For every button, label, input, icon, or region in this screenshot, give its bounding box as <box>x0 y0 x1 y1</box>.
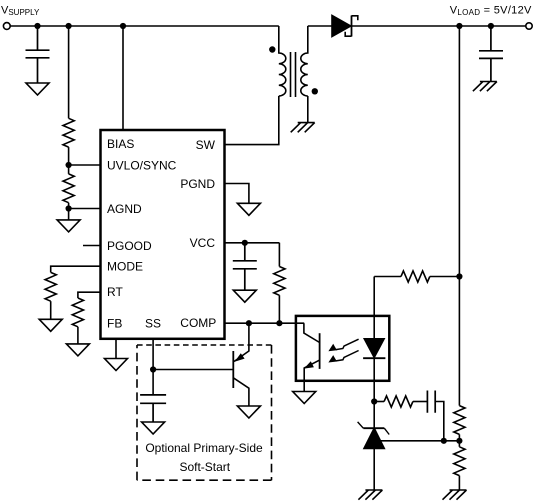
ground (VCC cap) <box>233 290 256 302</box>
node VLOAD terminal <box>526 23 532 29</box>
node VSUPPLY terminal <box>3 23 10 30</box>
wire RT to R4 <box>78 292 100 298</box>
svg-text:VCC: VCC <box>190 236 216 250</box>
wire cathode to R7 <box>374 401 384 403</box>
junction R6 rail <box>456 273 462 279</box>
dashed box optional soft-start top edge <box>137 344 272 346</box>
transformer T1 secondary winding <box>301 26 308 96</box>
svg-text:Soft-Start: Soft-Start <box>179 460 230 474</box>
optocoupler LED <box>363 339 385 358</box>
wire UVLO/SYNC pin <box>69 164 100 166</box>
svg-text:COMP: COMP <box>180 316 216 330</box>
junction BIAS <box>120 23 126 29</box>
capacitor C1 input bypass <box>26 26 50 83</box>
wire zener ref to divider <box>379 440 459 442</box>
ground (PGND) <box>237 203 260 215</box>
optocoupler light arrow lower <box>336 351 359 361</box>
junction divider mid <box>456 438 462 444</box>
svg-text:Optional Primary-Side: Optional Primary-Side <box>145 441 263 455</box>
ground (opto emitter) <box>293 392 316 404</box>
svg-text:MODE: MODE <box>107 260 143 274</box>
wire MODE to R3 <box>51 266 100 272</box>
transistor Q1 emitter arrow <box>235 353 245 362</box>
wire LED anode up <box>373 277 375 339</box>
wire R7 to C4 <box>413 401 428 403</box>
ground (FB) <box>105 359 128 371</box>
resistor R6 LED bias <box>401 271 430 282</box>
wire SS down <box>152 339 154 395</box>
resistor R7 compensation <box>384 396 413 407</box>
resistor R1 UVLO upper <box>63 118 74 147</box>
transistor Q1 collector <box>233 378 249 406</box>
optocoupler light arrow upper <box>336 339 359 349</box>
resistor R5 VCC to COMP <box>274 243 285 323</box>
wire LED cathode down <box>373 358 375 401</box>
optocoupler emitter arrow <box>304 361 314 368</box>
wire COMP to optocoupler <box>225 322 304 324</box>
wire FB stub <box>115 339 117 359</box>
resistor R8 divider upper <box>454 406 465 441</box>
svg-text:FB: FB <box>107 317 122 331</box>
resistor R4 RT <box>72 298 83 327</box>
wire BIAS <box>122 26 124 129</box>
capacitor C2 output <box>479 26 503 82</box>
junction output rail feedback <box>456 23 462 29</box>
ground (RT resistor) <box>66 344 89 356</box>
ground (SS cap) <box>142 422 165 434</box>
junction R5 COMP <box>276 320 282 326</box>
ground (MODE resistor) <box>39 319 62 331</box>
junction input cap <box>34 23 40 29</box>
junction SS <box>150 366 156 372</box>
diode D1 Schottky rectifier <box>332 16 358 37</box>
ground (UVLO divider) <box>57 209 80 232</box>
optocoupler phototransistor emitter <box>304 360 319 391</box>
transformer secondary polarity dot <box>312 88 318 94</box>
transistor Q1 PNP emitter wire <box>234 323 249 361</box>
wire output rail down <box>458 26 460 406</box>
zener D2 shunt regulator <box>358 402 390 491</box>
svg-text:VSUPPLY: VSUPPLY <box>1 4 40 16</box>
svg-text:UVLO/SYNC: UVLO/SYNC <box>107 158 177 172</box>
wire R3 to ground <box>50 301 52 319</box>
transistor Q1 base bar <box>232 351 234 388</box>
capacitor C3 VCC <box>233 243 257 290</box>
ground (Q1 collector) <box>237 406 260 418</box>
optocoupler U2 package <box>296 316 389 381</box>
svg-text:BIAS: BIAS <box>107 137 134 151</box>
svg-text:VLOAD = 5V/12V: VLOAD = 5V/12V <box>450 4 532 17</box>
svg-text:RT: RT <box>107 285 123 299</box>
wire R4 to ground <box>77 327 79 344</box>
wire rail to R1 <box>68 26 70 118</box>
transformer primary polarity dot <box>269 46 275 52</box>
wire PGND to ground <box>225 184 249 204</box>
wire VSUPPLY rail <box>10 25 279 27</box>
dashed box right edge <box>271 345 273 480</box>
wire SS to Q1 base <box>153 369 233 371</box>
resistor R9 divider lower <box>454 441 465 491</box>
junction LED cathode <box>371 398 377 404</box>
ground chassis (output cap) <box>473 82 497 92</box>
svg-text:SS: SS <box>145 317 161 331</box>
optocoupler phototransistor base bar <box>319 333 321 369</box>
wire SW pin to transformer <box>225 96 279 145</box>
junction UVLO divider <box>66 23 72 29</box>
wire VCC branch <box>225 242 279 244</box>
junction VCC cap <box>242 240 248 246</box>
resistor R2 UVLO lower <box>63 165 74 209</box>
junction output cap <box>488 23 494 29</box>
wire R1 to node <box>68 147 70 165</box>
svg-text:PGND: PGND <box>180 177 215 191</box>
wire C4 to ref node <box>435 402 444 441</box>
junction soft-start emitter <box>246 320 252 326</box>
dashed box bottom edge <box>137 479 272 481</box>
capacitor C4 compensation <box>427 391 435 413</box>
wire secondary to diode <box>308 25 332 27</box>
svg-text:PGOOD: PGOOD <box>107 239 152 253</box>
svg-text:AGND: AGND <box>107 202 142 216</box>
ground chassis (zener anode) <box>358 490 382 500</box>
ground chassis (divider) <box>443 490 467 500</box>
optocoupler phototransistor collector <box>304 323 320 342</box>
node UVLO/SYNC junction <box>66 162 72 168</box>
wire AGND pin <box>69 208 100 210</box>
junction C4 ref <box>441 438 447 444</box>
wire PGOOD stub <box>83 245 100 247</box>
node AGND junction <box>66 205 72 211</box>
transformer T1 core <box>291 52 296 97</box>
svg-text:SW: SW <box>196 138 216 152</box>
capacitor C5 soft-start <box>140 395 166 422</box>
wire R6 to rail <box>430 276 460 278</box>
resistor R3 MODE <box>45 272 56 301</box>
ground (input cap) <box>26 83 49 95</box>
transformer T1 primary winding <box>279 26 286 96</box>
IC U1 LM5160 <box>101 130 225 339</box>
wire secondary bottom to ground <box>307 96 309 123</box>
wire output rail <box>352 25 526 27</box>
wire LED anode to resistor <box>374 276 401 278</box>
dashed box left edge <box>136 345 138 480</box>
ground chassis (secondary) <box>291 123 315 133</box>
